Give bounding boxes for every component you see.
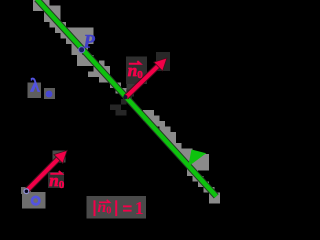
svg-text:0: 0 — [137, 69, 143, 81]
svg-text:0: 0 — [59, 179, 65, 191]
svg-text:1: 1 — [135, 198, 144, 218]
svg-text:P: P — [83, 33, 96, 53]
svg-text:λ: λ — [30, 76, 40, 97]
svg-text:0: 0 — [106, 206, 111, 217]
